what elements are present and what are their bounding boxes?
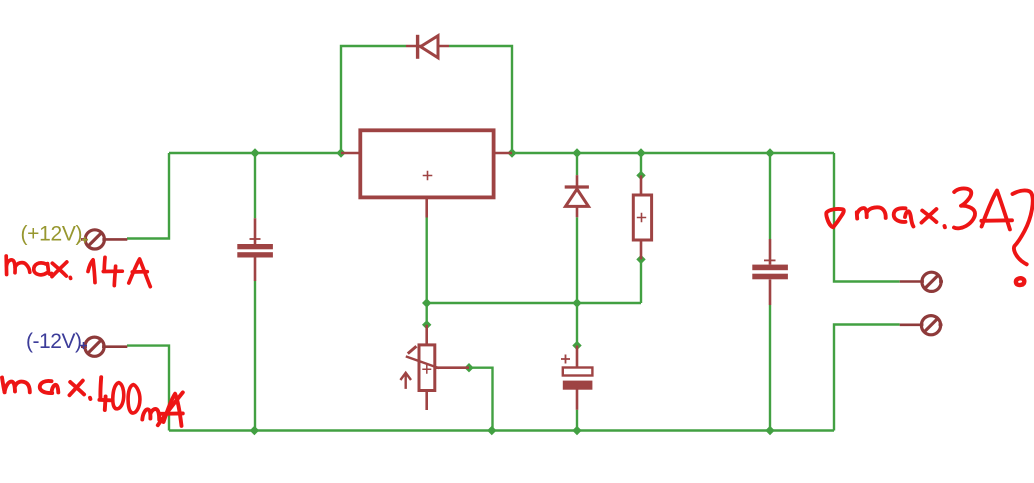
- wire: C2 bottom branch: [769, 305, 771, 431]
- regulator IC1: [341, 130, 512, 217]
- wire: C2 top branch: [769, 153, 771, 239]
- wire: R1 bottom to adj line: [640, 259, 642, 303]
- connector X4 (output terminal 2): [900, 316, 943, 335]
- capacitor C1: [237, 218, 273, 281]
- label (+12V): [21, 223, 83, 246]
- annotation: handwritten "max. 14A": [6, 256, 150, 287]
- wire: main top rail right (VOUT): [512, 152, 834, 154]
- annotation: handwritten "max. 3A" with bracket: [826, 188, 1033, 285]
- junction: main rail / diode loop / IC1 output: [507, 148, 516, 157]
- resistor R1: [633, 175, 651, 259]
- annotation: handwritten "max. 400mA" (crossed out): [2, 377, 183, 426]
- wire: C1 bottom branch: [254, 281, 256, 431]
- svg-text:(+12V): (+12V): [21, 223, 83, 246]
- label (-12V): [26, 330, 82, 353]
- junction: bottom rail / C1 bottom: [250, 426, 259, 435]
- wire: output2 branch: [834, 325, 900, 431]
- junction: R1 bottom pin: [636, 255, 645, 264]
- junction: bottom rail / C3 bottom: [572, 426, 581, 435]
- wire: main top rail left (VIN): [169, 152, 341, 154]
- wire: +12V input drop: [127, 153, 169, 239]
- wire: R1 top branch: [640, 153, 642, 175]
- junction: main rail / C2 top: [765, 148, 774, 157]
- connector X3 (output terminal 1): [900, 272, 943, 291]
- connector X1 (+12V terminal): [81, 230, 127, 249]
- wire: bottom rail (GND): [169, 429, 834, 431]
- junction: adj line / zener-C3 line: [572, 298, 581, 307]
- wire: output1 branch: [834, 153, 900, 282]
- diode D1: [406, 35, 449, 59]
- junction: bottom rail / C2 bottom: [765, 426, 774, 435]
- svg-text:(-12V): (-12V): [26, 330, 82, 353]
- wire: diode loop left vertical + top: [341, 46, 406, 153]
- junction: R1 top pin: [636, 171, 645, 180]
- wire: diode loop right top + vertical: [449, 46, 512, 153]
- junction: pot top pin: [422, 320, 431, 329]
- capacitor C2: [752, 239, 788, 305]
- junction: main rail / R1 branch: [636, 148, 645, 157]
- zener diode D2: [565, 175, 589, 217]
- wire: C3 bottom to rail: [576, 410, 578, 431]
- junction: main rail / diode loop / IC1 input: [336, 148, 345, 157]
- junction: main rail / zener branch: [572, 148, 581, 157]
- potentiometer R2: [400, 325, 469, 410]
- capacitor C3 (electrolytic): [561, 346, 592, 410]
- wire: regulator adj drop: [426, 218, 428, 325]
- wire: C1 top branch: [254, 153, 256, 218]
- wire: -12V input to bottom rail: [127, 346, 169, 431]
- junction: bottom rail / wiper drop: [487, 426, 496, 435]
- connector X2 (-12V terminal): [81, 337, 127, 356]
- junction: C3 top pin: [572, 341, 581, 350]
- label small cross at +12V pin: [78, 237, 89, 244]
- wire: pot wiper to rail: [469, 368, 493, 431]
- wire: zener to C3 vertical: [576, 217, 578, 345]
- label small cross at -12V pin: [80, 342, 87, 349]
- wire: adjust horizontal line: [427, 302, 641, 304]
- junction: main rail / C1 top: [250, 148, 259, 157]
- junction: pot wiper: [464, 363, 473, 372]
- junction: adj line / regulator drop: [422, 298, 431, 307]
- wire: zener top branch: [576, 153, 578, 175]
